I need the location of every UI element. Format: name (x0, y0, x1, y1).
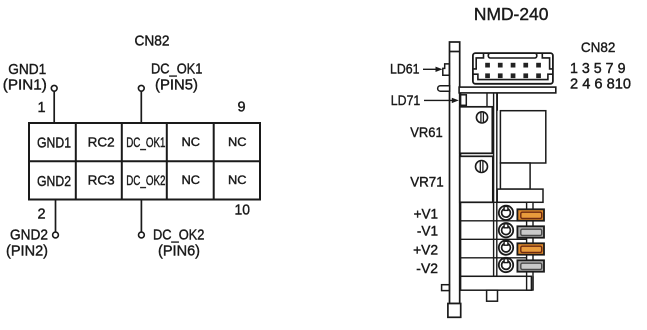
left small tab (442, 285, 450, 291)
header connector CN82 body (473, 53, 553, 84)
mounting pin capsule (438, 86, 450, 92)
svg-text:NC: NC (228, 135, 247, 149)
plug +V2 (orange) (517, 243, 544, 254)
svg-text:NMD-240: NMD-240 (474, 4, 549, 24)
svg-text:2 4 6 810: 2 4 6 810 (570, 76, 631, 92)
label DC_OK1 (PIN5) (151, 61, 202, 93)
svg-text:DC_OK1: DC_OK1 (126, 134, 165, 150)
svg-text:DC_OK2: DC_OK2 (126, 172, 165, 188)
VR71 screw (476, 161, 488, 173)
svg-text:1 3 5 7 9: 1 3 5 7 9 (570, 61, 626, 77)
arrow to LD71 (424, 98, 459, 103)
component box A (500, 111, 545, 163)
svg-text:RC3: RC3 (88, 173, 115, 188)
svg-text:-V1: -V1 (417, 223, 438, 239)
plug -V2 (gray) (517, 260, 544, 271)
terminal screw +V1 (499, 206, 513, 220)
header pins row 1 (485, 63, 541, 68)
svg-text:10: 10 (235, 203, 251, 219)
LED LD71 box (461, 95, 467, 106)
svg-text:(PIN6): (PIN6) (158, 243, 200, 259)
node pin2 circle (53, 232, 59, 238)
svg-text:VR61: VR61 (410, 124, 443, 140)
header pins row 2 (485, 73, 541, 78)
svg-text:DC_OK1: DC_OK1 (151, 61, 202, 77)
svg-text:VR71: VR71 (410, 173, 444, 189)
svg-text:LD71: LD71 (391, 92, 421, 108)
svg-text:NC: NC (228, 173, 247, 187)
svg-text:(PIN1): (PIN1) (3, 78, 47, 94)
wire pin2 from table (55, 200, 57, 233)
bracket foot (448, 304, 461, 318)
svg-text:-V2: -V2 (416, 260, 438, 276)
LED LD61 tab (443, 64, 450, 75)
svg-text:CN82: CN82 (581, 39, 616, 55)
VR61 screw (476, 112, 487, 123)
svg-text:DC_OK2: DC_OK2 (153, 227, 204, 243)
svg-text:2: 2 (38, 207, 46, 223)
bottom box (461, 276, 532, 290)
svg-text:LD61: LD61 (390, 61, 420, 77)
svg-text:+V1: +V1 (414, 205, 439, 221)
terminal screw +V2 (499, 240, 513, 254)
label GND1 (PIN1) (3, 62, 47, 94)
svg-text:(PIN2): (PIN2) (6, 243, 48, 259)
svg-text:9: 9 (238, 100, 246, 116)
arrow to LD61 (423, 67, 443, 72)
terminal rail column (527, 202, 533, 290)
wire pin6 from table (140, 200, 142, 233)
node pin6 circle (139, 232, 145, 238)
svg-text:GND2: GND2 (37, 174, 71, 190)
connector table CN82 (29, 123, 260, 200)
plug -V1 (gray) (517, 226, 544, 237)
wire pin5 to table (140, 91, 142, 123)
module spine double line (494, 93, 497, 276)
svg-text:NC: NC (182, 173, 201, 187)
structure stub lines (487, 93, 497, 111)
terminal row lines (461, 202, 530, 276)
node pin5 circle (138, 85, 144, 91)
svg-text:(PIN5): (PIN5) (155, 78, 198, 94)
potentiometer VR71 box (460, 156, 493, 202)
potentiometer VR61 box (460, 107, 493, 154)
bottom stub box (487, 290, 498, 301)
module left edge (460, 93, 462, 291)
terminal screw -V2 (499, 258, 513, 272)
component box B (500, 163, 530, 189)
svg-text:GND1: GND1 (8, 62, 46, 78)
pcb top bar (459, 87, 556, 93)
terminal screw -V1 (499, 223, 513, 237)
bracket bar (mounting rail) (450, 42, 460, 304)
plug +V1 (orange) (517, 209, 544, 220)
svg-text:GND1: GND1 (37, 136, 71, 152)
svg-text:CN82: CN82 (135, 33, 170, 50)
component box C (497, 189, 543, 202)
svg-text:RC2: RC2 (88, 135, 115, 150)
svg-text:1: 1 (38, 100, 46, 116)
wire pin1 to table (53, 91, 55, 123)
svg-text:NC: NC (182, 135, 201, 149)
svg-text:GND2: GND2 (10, 227, 48, 243)
label DC_OK2 (PIN6) (153, 227, 204, 259)
node pin1 circle (51, 85, 57, 91)
label GND2 (PIN2) (6, 227, 48, 259)
svg-text:+V2: +V2 (413, 241, 438, 257)
terminal rail lower segment (527, 276, 533, 290)
